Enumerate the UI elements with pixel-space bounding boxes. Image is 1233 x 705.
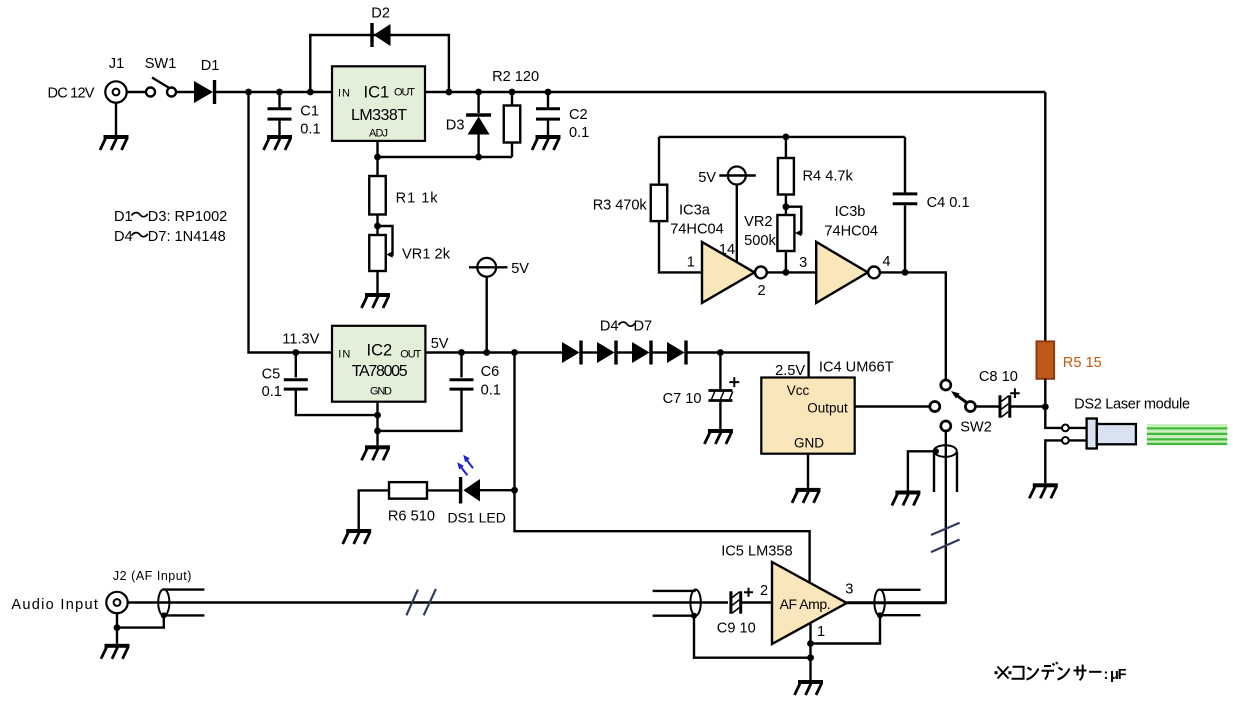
- svg-text:1: 1: [817, 624, 825, 640]
- svg-text:500k: 500k: [744, 233, 776, 249]
- svg-text:2: 2: [760, 583, 768, 599]
- svg-text:R3 470k: R3 470k: [593, 198, 648, 214]
- svg-text:14: 14: [719, 242, 735, 258]
- svg-text:D4: D4: [114, 229, 133, 245]
- svg-text:IN: IN: [338, 349, 350, 361]
- svg-text:IN: IN: [338, 88, 350, 100]
- svg-text:IC2: IC2: [367, 342, 393, 360]
- svg-text:IC3b: IC3b: [835, 204, 866, 220]
- svg-text:R2 120: R2 120: [492, 69, 539, 85]
- svg-text:R4 4.7k: R4 4.7k: [803, 169, 854, 185]
- svg-text:D1: D1: [201, 58, 220, 74]
- svg-text:0.1: 0.1: [262, 384, 282, 400]
- svg-text:4: 4: [882, 254, 890, 270]
- svg-text:D3: RP1002: D3: RP1002: [148, 209, 228, 225]
- svg-text:IC5 LM358: IC5 LM358: [721, 544, 792, 560]
- svg-text:DS2 Laser module: DS2 Laser module: [1074, 397, 1190, 413]
- svg-text:2: 2: [758, 283, 766, 299]
- svg-text:R5 15: R5 15: [1063, 355, 1102, 371]
- svg-text:Output: Output: [807, 401, 848, 416]
- svg-text:J1: J1: [109, 56, 124, 72]
- svg-text:IC4 UM66T: IC4 UM66T: [819, 360, 894, 376]
- svg-text:C4 0.1: C4 0.1: [927, 195, 970, 211]
- svg-text:IC1: IC1: [364, 84, 390, 102]
- svg-text:C1: C1: [300, 104, 319, 120]
- svg-text:11.3V: 11.3V: [282, 332, 319, 348]
- svg-text:Audio Input: Audio Input: [11, 597, 98, 613]
- svg-text:74HC04: 74HC04: [670, 222, 724, 238]
- svg-text:D7: 1N4148: D7: 1N4148: [148, 229, 226, 245]
- svg-text:5V: 5V: [431, 336, 449, 352]
- svg-text:1: 1: [687, 255, 695, 271]
- svg-text:DC 12V: DC 12V: [48, 86, 95, 102]
- svg-text:5V: 5V: [698, 170, 716, 186]
- svg-text:AF Amp.: AF Amp.: [780, 596, 831, 612]
- svg-text:SW1: SW1: [145, 56, 177, 72]
- svg-text:J2 (AF Input): J2 (AF Input): [113, 569, 191, 583]
- svg-text:OUT: OUT: [400, 349, 421, 361]
- svg-text:ADJ: ADJ: [369, 128, 388, 140]
- svg-text:TA78005: TA78005: [352, 363, 408, 380]
- svg-text:C8 10: C8 10: [979, 369, 1018, 385]
- svg-text:C6: C6: [481, 364, 500, 380]
- svg-text:GND: GND: [370, 386, 392, 398]
- svg-text:D4: D4: [600, 319, 619, 335]
- svg-text:D3: D3: [446, 118, 465, 134]
- svg-text:0.1: 0.1: [569, 125, 589, 141]
- svg-text:C2: C2: [569, 107, 588, 123]
- svg-text:R1 1k: R1 1k: [396, 191, 439, 207]
- svg-text:VR1 2k: VR1 2k: [402, 247, 451, 263]
- svg-text:OUT: OUT: [394, 87, 415, 99]
- svg-text:Vcc: Vcc: [787, 383, 810, 398]
- svg-text:SW2: SW2: [960, 420, 992, 436]
- svg-text:2.5V: 2.5V: [775, 363, 805, 379]
- svg-text:C9 10: C9 10: [717, 621, 756, 637]
- svg-text:VR2: VR2: [744, 214, 772, 230]
- svg-text:LM338T: LM338T: [351, 107, 407, 124]
- svg-text:DS1 LED: DS1 LED: [448, 510, 506, 526]
- svg-text:GND: GND: [794, 436, 824, 451]
- svg-text:C5: C5: [262, 367, 281, 383]
- svg-text:: μF: : μF: [1104, 667, 1127, 683]
- svg-text:74HC04: 74HC04: [824, 223, 878, 239]
- svg-text:3: 3: [799, 255, 807, 271]
- svg-text:D7: D7: [634, 319, 653, 335]
- svg-text:3: 3: [845, 582, 853, 598]
- svg-text:D2: D2: [371, 6, 390, 22]
- svg-text:D1: D1: [114, 209, 133, 225]
- svg-text:IC3a: IC3a: [679, 203, 711, 219]
- svg-text:0.1: 0.1: [481, 383, 501, 399]
- svg-text:C7 10: C7 10: [663, 391, 702, 407]
- svg-text:0.1: 0.1: [300, 122, 320, 138]
- svg-text:5V: 5V: [511, 261, 529, 277]
- svg-text:R6 510: R6 510: [388, 509, 435, 525]
